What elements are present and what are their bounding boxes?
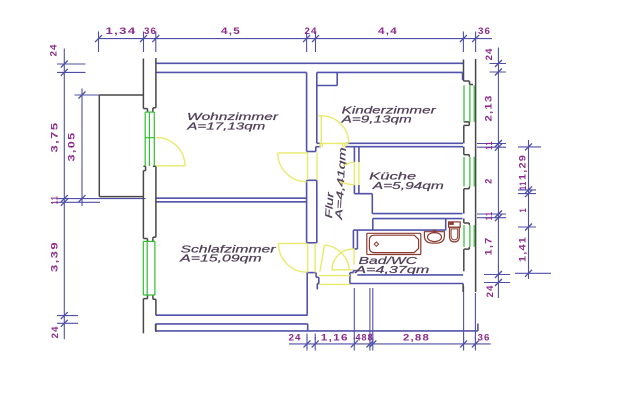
kueche/bad wall <box>372 213 462 215</box>
bathtub <box>367 233 421 254</box>
bad/flur wall <box>352 230 354 249</box>
kinderzimmer door <box>320 116 322 144</box>
wc <box>449 222 461 227</box>
left chain A <box>63 49 65 340</box>
svg-text:24: 24 <box>49 44 59 57</box>
bottom chain long extension lines up to building <box>353 288 355 340</box>
bad door <box>332 269 353 271</box>
svg-text:A=9,13qm: A=9,13qm <box>340 115 412 126</box>
window bad <box>463 225 465 247</box>
schlafzimmer bottom wall <box>156 314 308 316</box>
svg-text:24: 24 <box>485 285 495 298</box>
kueche/flur wall <box>353 147 355 163</box>
svg-text:24: 24 <box>305 26 318 36</box>
svg-text:36: 36 <box>478 333 491 343</box>
left chain B <box>81 89 83 207</box>
svg-text:3,05: 3,05 <box>67 132 77 162</box>
balcony door <box>156 137 163 139</box>
schlafzimmer door <box>278 242 306 244</box>
svg-text:1,29: 1,29 <box>518 154 528 180</box>
duct step right of sink <box>445 219 447 231</box>
wohnzimmer door <box>278 152 307 154</box>
window kinderzimmer <box>463 85 465 122</box>
wall wohnzimmer/kinderzimmer+flur <box>306 72 308 151</box>
svg-text:1,16: 1,16 <box>321 333 349 343</box>
svg-text:1,34: 1,34 <box>106 26 137 36</box>
kueche door <box>353 162 355 185</box>
wall wohnzimmer/schlafzimmer <box>156 197 307 199</box>
svg-text:11: 11 <box>484 211 494 220</box>
bad bottom wall <box>357 274 463 276</box>
svg-text:11: 11 <box>50 196 60 205</box>
svg-text:3,75: 3,75 <box>50 122 60 153</box>
kueche door opening 162.2-184.9 <box>353 185 355 194</box>
right wall top corner steps <box>463 60 465 82</box>
right wall outer face <box>475 59 477 292</box>
kinderzimmer bottom wall <box>345 142 463 144</box>
bad door opening 248.9-270.6 <box>353 270 357 272</box>
pillar kinderzimmer <box>317 85 337 87</box>
top wall <box>156 62 464 64</box>
svg-text:4,4: 4,4 <box>378 26 398 36</box>
schlafzimmer door opening 242.8-272.8 <box>307 272 317 274</box>
right chain 1 <box>497 48 499 299</box>
window schlafzimmer <box>142 241 144 295</box>
wohnzimmer door opening 151.5-180.3 <box>307 179 317 181</box>
svg-text:1,7: 1,7 <box>484 237 494 256</box>
svg-text:3,39: 3,39 <box>50 241 60 272</box>
left wall outer face <box>142 59 144 109</box>
svg-text:11: 11 <box>518 181 528 190</box>
svg-text:A=17,13qm: A=17,13qm <box>186 121 266 132</box>
svg-text:A=15,09qm: A=15,09qm <box>179 254 262 265</box>
svg-text:A=5,94qm: A=5,94qm <box>371 181 444 192</box>
svg-text:1,41: 1,41 <box>518 236 528 262</box>
entrance door <box>320 245 325 272</box>
svg-text:1: 1 <box>518 208 528 213</box>
sink <box>424 232 444 244</box>
right wall inner face segments + reveals <box>462 72 464 80</box>
svg-text:2,88: 2,88 <box>403 333 430 343</box>
svg-text:11: 11 <box>484 141 494 150</box>
svg-text:24: 24 <box>289 333 302 343</box>
svg-text:36: 36 <box>478 26 491 36</box>
svg-text:2,13: 2,13 <box>484 95 494 122</box>
svg-text:24: 24 <box>484 48 494 61</box>
bottom band <box>155 324 157 331</box>
left wall inner face <box>155 58 157 108</box>
right chain 2 <box>528 140 530 279</box>
svg-text:4,5: 4,5 <box>221 26 241 36</box>
svg-text:2: 2 <box>484 178 494 184</box>
top dimension line <box>98 38 492 40</box>
top chain extension stubs <box>98 32 100 53</box>
svg-text:36: 36 <box>144 26 157 36</box>
bottom dimension line <box>289 343 491 345</box>
balcony <box>99 94 143 96</box>
top chain oblique ticks <box>95 35 479 42</box>
svg-text:24: 24 <box>50 326 60 339</box>
window kueche <box>463 157 465 187</box>
window wohnzimmer/balcony door <box>144 112 146 166</box>
